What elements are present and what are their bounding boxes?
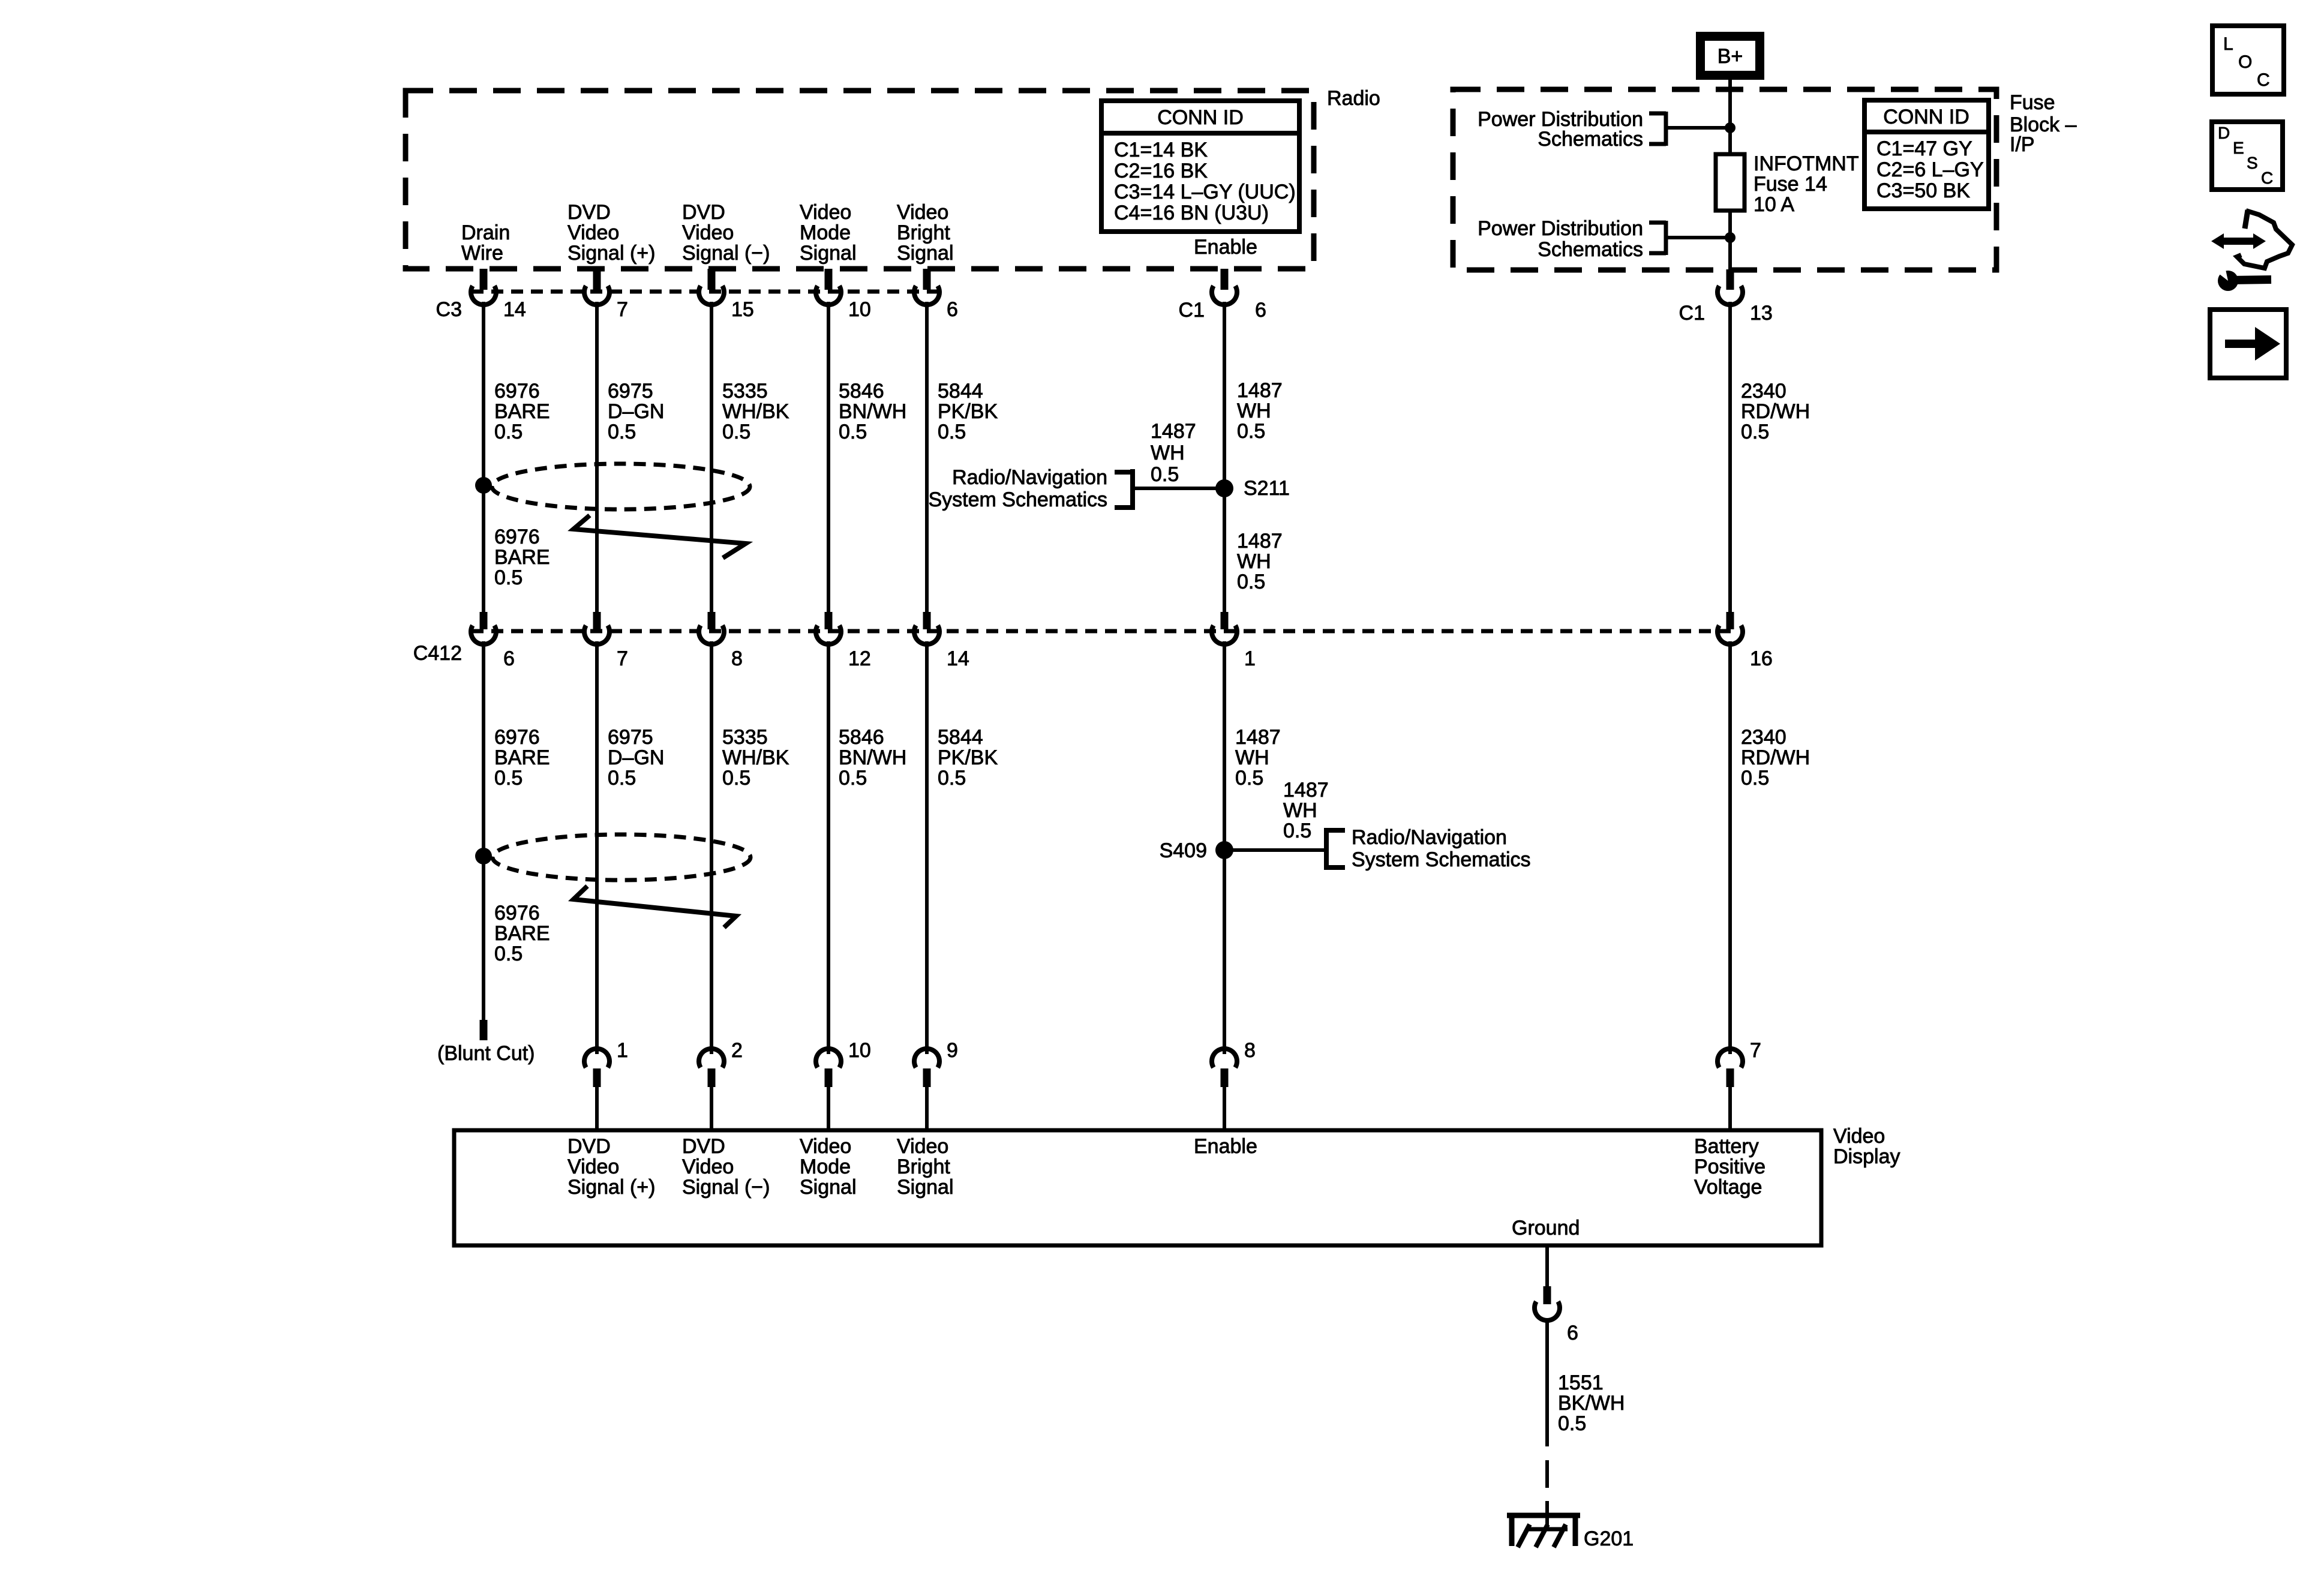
svg-text:6976: 6976 — [494, 380, 540, 403]
svg-text:6: 6 — [1255, 299, 1266, 322]
enable lower segment — [1223, 641, 1226, 1054]
connector C412 in-line dashed link — [472, 629, 1734, 634]
B+ battery positive symbol — [1696, 32, 1764, 80]
svg-text:System Schematics: System Schematics — [1352, 848, 1531, 871]
svg-text:5335: 5335 — [722, 380, 768, 403]
splice node on drain wire (upper) — [475, 477, 492, 494]
svg-text:C3: C3 — [436, 298, 462, 321]
svg-text:CONN ID: CONN ID — [1883, 106, 1969, 128]
svg-text:Mode: Mode — [800, 1155, 851, 1178]
svg-text:5846: 5846 — [839, 380, 884, 403]
svg-text:Enable: Enable — [1194, 1135, 1257, 1158]
connector C3 pin 7 — [593, 269, 601, 290]
svg-text:Signal (−): Signal (−) — [682, 242, 770, 265]
svg-text:Video: Video — [682, 1155, 734, 1178]
video mode lower segment — [827, 641, 830, 1054]
svg-text:7: 7 — [617, 647, 628, 670]
svg-text:5335: 5335 — [722, 726, 768, 749]
svg-text:WH: WH — [1283, 799, 1317, 822]
connector C412 pin 8 — [708, 612, 716, 629]
svg-text:BARE: BARE — [494, 922, 550, 945]
svg-text:INFOTMNT: INFOTMNT — [1753, 152, 1859, 175]
svg-text:0.5: 0.5 — [722, 767, 750, 789]
svg-text:I/P: I/P — [2010, 133, 2035, 156]
svg-text:2340: 2340 — [1741, 726, 1786, 749]
svg-text:Display: Display — [1833, 1145, 1900, 1168]
svg-text:Radio: Radio — [1327, 87, 1380, 110]
svg-text:Signal (−): Signal (−) — [682, 1176, 770, 1199]
svg-text:Schematics: Schematics — [1538, 238, 1643, 261]
svg-text:1: 1 — [617, 1039, 628, 1062]
svg-text:S211: S211 — [1244, 477, 1290, 500]
svg-text:Signal: Signal — [800, 1176, 857, 1199]
svg-text:PK/BK: PK/BK — [938, 400, 998, 423]
svg-text:5846: 5846 — [839, 726, 884, 749]
svg-text:WH: WH — [1235, 746, 1269, 769]
Radio component dashed box — [406, 91, 1314, 269]
svg-text:9: 9 — [947, 1039, 958, 1062]
svg-text:0.5: 0.5 — [1558, 1412, 1586, 1435]
svg-text:C3=14 L–GY (UUC): C3=14 L–GY (UUC) — [1114, 181, 1296, 203]
svg-text:1: 1 — [1244, 647, 1256, 670]
svg-text:BK/WH: BK/WH — [1558, 1392, 1625, 1415]
svg-text:C1: C1 — [1179, 299, 1205, 322]
svg-text:0.5: 0.5 — [494, 942, 523, 965]
svg-text:BN/WH: BN/WH — [839, 400, 906, 423]
svg-text:WH/BK: WH/BK — [722, 400, 789, 423]
off-page bracket (radio/navigation S409) — [1324, 828, 1329, 870]
connector C412 pin 14 — [923, 612, 931, 629]
svg-text:(Blunt Cut): (Blunt Cut) — [437, 1042, 535, 1065]
svg-text:10: 10 — [848, 1039, 871, 1062]
svg-text:Wire: Wire — [461, 242, 503, 265]
video bright signal wire segment — [925, 302, 929, 613]
svg-text:6976: 6976 — [494, 902, 540, 924]
connector C1 (radio) pin 6 — [1221, 269, 1229, 290]
svg-text:0.5: 0.5 — [608, 767, 636, 789]
svg-text:C: C — [2261, 169, 2273, 187]
Fuse Block - I/P dashed box — [1453, 89, 1996, 270]
drain wire lower segment — [482, 641, 485, 1020]
svg-text:0.5: 0.5 — [1741, 421, 1769, 443]
drain wire segment — [482, 302, 485, 613]
svg-text:WH: WH — [1151, 442, 1185, 464]
video bright lower segment — [925, 641, 929, 1054]
connector C3 pin 10 — [825, 269, 833, 290]
DVD video signal - lower segment — [710, 641, 713, 1054]
svg-text:12: 12 — [848, 647, 871, 670]
svg-text:WH/BK: WH/BK — [722, 746, 789, 769]
svg-text:WH: WH — [1237, 400, 1271, 422]
svg-text:Radio/Navigation: Radio/Navigation — [1352, 826, 1507, 849]
svg-text:16: 16 — [1750, 647, 1773, 670]
svg-text:Bright: Bright — [897, 1155, 950, 1178]
ground wire dashed continuation — [1545, 1460, 1549, 1488]
fuse INFOTMNT Fuse 14 10 A — [1716, 154, 1744, 211]
connector C412 pin 6 — [480, 612, 488, 629]
svg-text:0.5: 0.5 — [494, 767, 523, 789]
svg-text:6: 6 — [947, 298, 958, 321]
svg-text:6: 6 — [1567, 1322, 1578, 1344]
svg-text:E: E — [2233, 139, 2244, 157]
svg-text:D–GN: D–GN — [608, 746, 664, 769]
svg-text:Video: Video — [800, 1135, 851, 1158]
svg-text:0.5: 0.5 — [722, 421, 750, 443]
svg-text:0.5: 0.5 — [1741, 767, 1769, 789]
svg-text:14: 14 — [947, 647, 969, 670]
svg-text:Signal (+): Signal (+) — [568, 242, 655, 265]
svg-text:6975: 6975 — [608, 380, 653, 403]
svg-text:7: 7 — [1750, 1039, 1761, 1062]
svg-text:C1=47 GY: C1=47 GY — [1876, 137, 1972, 160]
battery feed wire segment — [1728, 302, 1732, 613]
video display connector pin 1 — [584, 1049, 609, 1067]
connector C412 pin 1 — [1221, 612, 1229, 629]
blunt cut end of drain wire — [480, 1020, 488, 1040]
svg-text:10: 10 — [848, 298, 871, 321]
svg-text:Video: Video — [568, 1155, 619, 1178]
connector C3 in-line dashed link — [472, 290, 939, 294]
DESC navigation icon — [2212, 122, 2283, 190]
svg-text:BARE: BARE — [494, 400, 550, 423]
svg-text:RD/WH: RD/WH — [1741, 746, 1810, 769]
svg-text:Schematics: Schematics — [1538, 128, 1643, 151]
connector C412 pin 7 — [593, 612, 601, 629]
svg-text:L: L — [2223, 34, 2233, 54]
twisted pair arrow (upper) — [574, 515, 746, 558]
svg-text:8: 8 — [731, 647, 743, 670]
svg-text:15: 15 — [731, 298, 754, 321]
svg-text:6: 6 — [503, 647, 515, 670]
svg-text:C3=50 BK: C3=50 BK — [1876, 179, 1970, 202]
svg-text:DVD: DVD — [568, 1135, 611, 1158]
svg-text:Radio/Navigation: Radio/Navigation — [952, 466, 1107, 489]
DVD video signal + wire segment — [595, 302, 599, 613]
svg-text:O: O — [2238, 52, 2252, 72]
svg-text:Signal: Signal — [897, 1176, 954, 1199]
svg-text:0.5: 0.5 — [1237, 420, 1265, 443]
svg-text:5844: 5844 — [938, 726, 983, 749]
svg-text:S: S — [2247, 154, 2258, 172]
svg-text:Signal (+): Signal (+) — [568, 1176, 655, 1199]
svg-text:0.5: 0.5 — [494, 421, 523, 443]
junction node (power distribution tap 2) — [1725, 232, 1736, 243]
video display connector pin 2 — [699, 1049, 724, 1067]
svg-text:2: 2 — [731, 1039, 743, 1062]
connector C3 pin 6 — [923, 269, 931, 290]
svg-text:Video: Video — [897, 1135, 948, 1158]
svg-text:Drain: Drain — [461, 221, 510, 244]
svg-text:0.5: 0.5 — [494, 566, 523, 589]
svg-text:0.5: 0.5 — [938, 767, 966, 789]
DVD video signal + lower segment — [595, 641, 599, 1054]
video mode signal wire segment — [827, 302, 830, 613]
wire to power distribution schematics 2 — [1666, 236, 1730, 239]
svg-text:Positive: Positive — [1694, 1155, 1765, 1178]
svg-text:C4=16 BN (U3U): C4=16 BN (U3U) — [1114, 202, 1269, 224]
wire S409 to radio/navigation bracket — [1224, 848, 1326, 852]
connector C412 pin 16 — [1727, 612, 1734, 629]
svg-text:Enable: Enable — [1194, 236, 1257, 259]
svg-text:Ground: Ground — [1512, 1217, 1580, 1239]
svg-text:1487: 1487 — [1283, 779, 1329, 801]
svg-text:0.5: 0.5 — [839, 421, 867, 443]
svg-text:Signal: Signal — [897, 242, 954, 265]
off-page bracket (radio/navigation S211) — [1130, 469, 1135, 510]
svg-text:C2=6 L–GY: C2=6 L–GY — [1876, 158, 1984, 181]
video display connector pin 7 — [1718, 1049, 1743, 1067]
wire S211 to radio/navigation bracket — [1133, 487, 1224, 490]
wire to power distribution schematics 1 — [1666, 126, 1730, 130]
video display connector pin 9 — [914, 1049, 939, 1067]
splice S409 — [1215, 841, 1233, 859]
ground wire from display — [1545, 1245, 1549, 1286]
svg-text:8: 8 — [1244, 1039, 1256, 1062]
svg-text:C412: C412 — [413, 642, 462, 665]
svg-text:6976: 6976 — [494, 726, 540, 749]
svg-text:1487: 1487 — [1237, 379, 1283, 402]
schematic navigation icon (outline, double arrow, wrench) — [2245, 210, 2248, 229]
svg-text:Mode: Mode — [800, 221, 851, 244]
Video Display box — [454, 1130, 1821, 1245]
svg-text:Power Distribution: Power Distribution — [1478, 217, 1643, 240]
off-page bracket (power distribution 1) — [1664, 112, 1668, 146]
svg-text:13: 13 — [1750, 302, 1773, 325]
video display connector pin 8 — [1212, 1049, 1237, 1067]
svg-text:6976: 6976 — [494, 526, 540, 548]
svg-text:6975: 6975 — [608, 726, 653, 749]
shield drain ellipse (upper) — [492, 464, 750, 509]
svg-text:BARE: BARE — [494, 746, 550, 769]
svg-text:10 A: 10 A — [1753, 193, 1794, 216]
enable wire segment — [1223, 302, 1226, 613]
svg-text:7: 7 — [617, 298, 628, 321]
svg-text:1487: 1487 — [1237, 530, 1283, 553]
svg-text:G201: G201 — [1584, 1527, 1634, 1550]
off-page bracket (power distribution 2) — [1664, 221, 1668, 255]
svg-text:PK/BK: PK/BK — [938, 746, 998, 769]
svg-text:5844: 5844 — [938, 380, 983, 403]
ground symbol G201 — [1507, 1513, 1580, 1518]
svg-text:C1=14 BK: C1=14 BK — [1114, 139, 1208, 161]
svg-text:C1: C1 — [1679, 302, 1705, 325]
svg-text:RD/WH: RD/WH — [1741, 400, 1810, 423]
svg-text:1551: 1551 — [1558, 1371, 1604, 1394]
twisted pair arrow (lower) — [574, 886, 736, 927]
svg-text:CONN ID: CONN ID — [1157, 106, 1244, 129]
svg-text:C2=16 BK: C2=16 BK — [1114, 160, 1208, 182]
svg-text:0.5: 0.5 — [608, 421, 636, 443]
svg-text:D–GN: D–GN — [608, 400, 664, 423]
junction node (power distribution tap 1) — [1725, 122, 1736, 133]
svg-text:D: D — [2218, 124, 2230, 142]
ground wire 1551 BK/WH — [1545, 1318, 1549, 1446]
svg-text:Signal: Signal — [800, 242, 857, 265]
connector C412 pin 12 — [825, 612, 833, 629]
svg-text:B+: B+ — [1718, 45, 1743, 68]
svg-text:WH: WH — [1237, 550, 1271, 573]
svg-text:0.5: 0.5 — [1237, 571, 1265, 593]
svg-text:0.5: 0.5 — [1283, 819, 1311, 842]
svg-text:0.5: 0.5 — [1151, 463, 1179, 486]
svg-text:0.5: 0.5 — [839, 767, 867, 789]
connector C3 pin 15 — [708, 269, 716, 290]
forward arrow navigation icon — [2210, 310, 2286, 378]
svg-text:2340: 2340 — [1741, 380, 1786, 403]
svg-text:Video: Video — [568, 221, 619, 244]
svg-text:Bright: Bright — [897, 221, 950, 244]
ground connector pin 6 — [1544, 1286, 1551, 1304]
svg-text:Voltage: Voltage — [1694, 1176, 1762, 1199]
svg-text:Battery: Battery — [1694, 1135, 1759, 1158]
svg-text:DVD: DVD — [568, 201, 611, 224]
svg-text:DVD: DVD — [682, 201, 725, 224]
svg-text:Video: Video — [897, 201, 948, 224]
connector C1 (fuse block) pin 13 — [1727, 269, 1734, 290]
svg-text:Video: Video — [1833, 1125, 1885, 1148]
shield drain ellipse (lower) — [493, 834, 750, 880]
svg-text:1487: 1487 — [1235, 726, 1281, 749]
svg-text:BN/WH: BN/WH — [839, 746, 906, 769]
svg-text:0.5: 0.5 — [938, 421, 966, 443]
svg-text:DVD: DVD — [682, 1135, 725, 1158]
svg-text:C: C — [2257, 70, 2270, 90]
battery lower segment — [1728, 641, 1732, 1054]
DVD video signal - wire segment — [710, 302, 713, 613]
video display connector pin 10 — [816, 1049, 841, 1067]
svg-text:S409: S409 — [1160, 839, 1207, 862]
wire fuse to lower junction — [1728, 211, 1732, 269]
CONN ID table (Fuse Block) — [1864, 100, 1989, 209]
svg-text:1487: 1487 — [1151, 420, 1196, 443]
CONN ID table (Radio) — [1101, 101, 1299, 232]
svg-text:System Schematics: System Schematics — [928, 488, 1107, 511]
splice node on drain wire (lower) — [475, 848, 492, 864]
svg-text:14: 14 — [503, 298, 526, 321]
connector C3 pin 14 — [480, 269, 488, 290]
svg-text:Video: Video — [800, 201, 851, 224]
svg-text:BARE: BARE — [494, 546, 550, 569]
svg-text:Fuse: Fuse — [2010, 91, 2055, 114]
LOC navigation icon — [2212, 26, 2284, 94]
wire B+ to fuse — [1728, 80, 1732, 154]
svg-text:0.5: 0.5 — [1235, 767, 1263, 789]
splice S211 — [1215, 479, 1233, 497]
svg-text:Video: Video — [682, 221, 734, 244]
svg-text:Fuse 14: Fuse 14 — [1753, 173, 1827, 196]
